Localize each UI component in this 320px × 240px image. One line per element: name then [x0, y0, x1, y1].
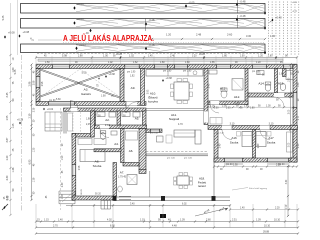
- svg-text:Nappali: Nappali: [169, 117, 180, 121]
- svg-text:+0.28: +0.28: [199, 54, 206, 56]
- level marker +0.38 garage: [98, 73, 115, 80]
- level marker x90 band2: [86, 29, 92, 35]
- terrace sub chain: [114, 204, 231, 207]
- rotated dim kitchen: [148, 89, 150, 94]
- band tick vertical x237b: [237, 15, 239, 28]
- wall corner extension ticks top: [36, 56, 297, 65]
- leader koris: [232, 187, 268, 190]
- kitchen counter: [146, 70, 203, 77]
- svg-text:+0.03: +0.03: [79, 43, 86, 47]
- svg-text:1.00: 1.00: [210, 105, 215, 107]
- svg-text:pm 1,00: pm 1,00: [167, 158, 176, 160]
- hall closet: [68, 113, 73, 131]
- svg-text:A8.: A8.: [95, 160, 100, 164]
- svg-text:5.00: 5.00: [82, 72, 87, 75]
- window A13 north: [216, 65, 231, 69]
- hall dashed lines: [73, 112, 81, 133]
- room label A2: [105, 118, 111, 127]
- svg-text:1.15: 1.15: [44, 218, 49, 221]
- svg-text:3.45: 3.45: [6, 92, 9, 97]
- entry door: [71, 101, 78, 112]
- window A9 north: [125, 65, 140, 69]
- living room tv: [157, 135, 173, 143]
- svg-text:1.55: 1.55: [6, 115, 9, 120]
- svg-text:A15.: A15.: [278, 82, 285, 86]
- svg-text:1.60: 1.60: [268, 56, 273, 58]
- label Hjkp: [30, 38, 34, 42]
- window A16 south: [224, 158, 243, 165]
- room label Fedett terasz: [198, 177, 207, 189]
- svg-text:1.20: 1.20: [166, 33, 172, 37]
- right dimension chain: [289, 63, 291, 163]
- room label A17 Szoba: [267, 136, 276, 145]
- svg-text:+0.38: +0.38: [166, 77, 173, 80]
- terrace post south middle: [161, 196, 165, 201]
- opening nappali corridor: [204, 112, 208, 123]
- door A4 top: [100, 125, 109, 138]
- corridor closet: [210, 118, 222, 125]
- level marker -0.48 band2: [236, 14, 246, 21]
- svg-text:1.40: 1.40: [148, 56, 153, 58]
- wall above bedrooms: [208, 126, 298, 130]
- room label A11 Nappali: [169, 113, 180, 121]
- pm labels row mid: [150, 133, 225, 135]
- window east wall: [293, 92, 297, 108]
- garage cross: [41, 68, 121, 98]
- left margin chain: [9, 3, 11, 216]
- roof overhang dashed: [60, 108, 62, 210]
- svg-text:A4.: A4.: [114, 142, 119, 146]
- level marker +0.08 left: [4, 31, 15, 39]
- left band guide line: [17, 0, 19, 55]
- bottom total row: [35, 231, 299, 235]
- wall A9 east / kitchen west: [141, 69, 145, 106]
- svg-text:A7.: A7.: [120, 171, 125, 175]
- svg-text:A14.: A14.: [258, 82, 265, 86]
- rotated dim A16: [220, 143, 222, 148]
- rotated dim garage: [42, 81, 44, 86]
- svg-text:1.08: 1.08: [101, 95, 106, 97]
- NE small dims: [256, 74, 293, 76]
- A2 fixtures: [97, 112, 116, 117]
- svg-text:+0.28: +0.28: [116, 54, 123, 56]
- svg-text:pm 1,80: pm 1,80: [163, 71, 172, 73]
- north exterior wall: [36, 65, 297, 69]
- svg-text:1.39: 1.39: [180, 218, 185, 221]
- svg-text:3.40: 3.40: [286, 179, 288, 184]
- svg-text:A12.: A12.: [234, 95, 241, 99]
- svg-text:10.10: 10.10: [274, 218, 281, 221]
- bottom dimension chains: [35, 220, 299, 228]
- svg-text:2.98: 2.98: [29, 81, 32, 86]
- A15 fixtures: [280, 71, 293, 91]
- wall A4 A6 divider: [121, 129, 125, 163]
- svg-text:1.20: 1.20: [256, 74, 261, 76]
- room label A5: [135, 117, 140, 121]
- svg-text:Kőris kötél egyeng: Kőris kötél egyeng: [249, 187, 268, 190]
- svg-text:2.48: 2.48: [196, 33, 202, 37]
- svg-text:3.40: 3.40: [130, 204, 135, 206]
- band tick vertical x237a: [237, 0, 239, 14]
- svg-text:2.40: 2.40: [170, 55, 175, 58]
- svg-text:pm 2,10: pm 2,10: [216, 133, 225, 135]
- svg-text:3.93: 3.93: [148, 89, 150, 94]
- A6 shelf: [126, 131, 138, 140]
- svg-text:2.98: 2.98: [123, 83, 125, 88]
- svg-text:1.39: 1.39: [256, 218, 261, 221]
- svg-text:+0.03: +0.03: [77, 17, 84, 21]
- terrace steps south: [101, 201, 111, 210]
- rotated dim A9: [123, 83, 125, 88]
- roof edge dashed line: [37, 53, 266, 55]
- rotated labels 40.38: [195, 206, 228, 216]
- level marker +0.03 band2: [73, 17, 84, 25]
- svg-text:pm 1,80: pm 1,80: [183, 71, 192, 73]
- garage inner dims: [56, 86, 99, 101]
- A7 block stub: [139, 170, 146, 174]
- A8 bed: [78, 139, 106, 162]
- kitchen table with chairs: [171, 79, 193, 104]
- room label A15: [278, 82, 285, 86]
- extension lines bottom: [36, 204, 297, 228]
- bottom dim texts row2: [53, 224, 271, 227]
- A2 A5 inner dims: [98, 116, 126, 118]
- svg-text:A9.: A9.: [131, 86, 136, 90]
- svg-text:3.02: 3.02: [8, 195, 10, 200]
- svg-text:1.00: 1.00: [266, 105, 271, 107]
- svg-text:1.65: 1.65: [210, 62, 215, 64]
- svg-text:1.50: 1.50: [45, 62, 50, 64]
- svg-text:2.80: 2.80: [206, 218, 211, 221]
- svg-text:terasz: terasz: [198, 184, 206, 188]
- terrace east edge line: [213, 162, 215, 197]
- bedroom lower dim chain: [213, 165, 298, 171]
- svg-text:90 20: 90 20: [95, 194, 101, 196]
- level marker band1 end: [264, 11, 266, 15]
- svg-text:-0.28: -0.28: [149, 43, 155, 47]
- level marker +0.03 band1: [73, 2, 84, 10]
- hall north wall: [64, 108, 147, 111]
- wall A2 east A5 west: [117, 111, 121, 125]
- svg-text:-2.77: -2.77: [292, 11, 298, 13]
- top dim texts: [62, 55, 288, 58]
- room label A10 Etkezo konyha: [148, 92, 158, 104]
- rotated dim A13: [209, 83, 211, 88]
- room label A4: [114, 142, 119, 146]
- svg-text:5.60: 5.60: [56, 99, 61, 101]
- svg-text:1.25: 1.25: [33, 147, 35, 152]
- svg-text:+0.38: +0.38: [109, 73, 116, 76]
- left dim texts: [29, 81, 32, 164]
- left margin texts: [2, 15, 17, 200]
- wall below A13: [208, 101, 248, 105]
- svg-text:+0.38: +0.38: [17, 118, 24, 121]
- A7 shower: [118, 175, 137, 193]
- svg-text:-0.05: -0.05: [292, 2, 298, 4]
- section arrow bottom left: [2, 204, 8, 210]
- entry level marker: [17, 118, 24, 124]
- entry porch: [43, 108, 62, 131]
- svg-text:1.50: 1.50: [62, 194, 64, 199]
- level marker +0.03 band3: [75, 43, 86, 50]
- room label A14: [258, 82, 265, 86]
- svg-text:pm 2,10: pm 2,10: [150, 133, 159, 135]
- section line vertical: [21, 55, 23, 212]
- west exterior wall garage: [36, 69, 40, 102]
- svg-text:1.80: 1.80: [250, 108, 255, 110]
- wall below A4: [94, 149, 121, 152]
- plaster line above north wall: [36, 62, 297, 64]
- svg-text:1.38: 1.38: [12, 167, 15, 172]
- corridor dim texts: [210, 105, 281, 107]
- svg-text:1,92: 1,92: [130, 76, 135, 78]
- A8 east wall: [91, 111, 95, 137]
- svg-text:6.93: 6.93: [29, 159, 32, 164]
- window A8 west: [72, 164, 76, 176]
- wall below A14 A15: [248, 93, 293, 97]
- wall A15 east stub: [283, 69, 287, 77]
- svg-text:2.05: 2.05: [222, 105, 227, 107]
- svg-text:3.00: 3.00: [289, 142, 291, 147]
- svg-text:A5.: A5.: [135, 117, 140, 121]
- A17 closet: [287, 132, 293, 152]
- svg-text:pm 1,80: pm 1,80: [252, 71, 261, 73]
- dim line under numbers: [151, 38, 266, 40]
- svg-text:A17: A17: [268, 136, 274, 140]
- level marker band3 end: [264, 51, 266, 55]
- svg-text:1.20: 1.20: [258, 55, 263, 58]
- svg-text:1.20: 1.20: [256, 62, 261, 64]
- svg-text:2.05: 2.05: [226, 108, 231, 110]
- svg-text:1.20: 1.20: [6, 155, 9, 160]
- svg-text:1.60: 1.60: [279, 74, 284, 76]
- window kitchen north 1: [154, 65, 168, 69]
- roof band 1: [21, 4, 266, 14]
- svg-text:1,98: 1,98: [86, 119, 91, 121]
- A8 north wall jog: [72, 134, 93, 138]
- door A9 south: [126, 102, 137, 114]
- title A JELU LAKAS ALAPRAJZA: [63, 34, 265, 43]
- svg-text:Szoba: Szoba: [93, 164, 102, 168]
- svg-text:Garázs: Garázs: [81, 92, 91, 96]
- roof band 2: [21, 19, 266, 29]
- svg-text:2.00: 2.00: [289, 109, 291, 114]
- svg-text:+0.38: +0.38: [23, 30, 30, 34]
- room label A7: [118, 171, 127, 179]
- A16 bed: [237, 132, 253, 147]
- svg-text:10.10: 10.10: [264, 224, 271, 227]
- svg-text:2-60: 2-60: [227, 33, 233, 37]
- svg-text:+0.48: +0.48: [275, 16, 282, 20]
- svg-text:-0.28: -0.28: [149, 18, 155, 22]
- wall A16 west: [214, 130, 218, 163]
- svg-text:3.30: 3.30: [246, 34, 252, 38]
- wall A16 A17 divider: [253, 130, 256, 159]
- svg-text:4.70: 4.70: [178, 123, 183, 126]
- dim row between bands: [166, 33, 276, 39]
- mid wall below A2 A5: [92, 125, 147, 129]
- svg-text:2.77: 2.77: [298, 115, 300, 120]
- svg-text:1.79 45: 1.79 45: [118, 176, 127, 179]
- svg-text:2.45: 2.45: [209, 83, 211, 88]
- svg-text:2.51: 2.51: [232, 218, 237, 221]
- svg-text:3.10: 3.10: [230, 123, 235, 126]
- svg-text:1.30: 1.30: [270, 34, 276, 38]
- rotated dim bl: [4, 195, 48, 200]
- window A15 north 2: [283, 65, 293, 69]
- wall A6 east thick: [139, 129, 146, 171]
- svg-text:39.88: 39.88: [263, 231, 270, 234]
- svg-text:1.80: 1.80: [298, 82, 300, 87]
- svg-text:A2.: A2.: [105, 118, 110, 122]
- nappali terrace glass wall: [146, 152, 208, 156]
- svg-text:+0.03: +0.03: [77, 2, 84, 6]
- svg-text:1.02: 1.02: [108, 62, 113, 64]
- svg-text:A6.: A6.: [129, 149, 134, 153]
- svg-text:4.02: 4.02: [107, 218, 112, 221]
- level marker +0.48 grid: [270, 16, 283, 23]
- parapet labels: [49, 71, 285, 196]
- room label A16 Szoba: [230, 136, 239, 145]
- A8 bottom sub chain: [66, 188, 114, 206]
- garage south window: [48, 102, 75, 106]
- window A17 south: [267, 158, 289, 165]
- paving dot grid top-right: [268, 2, 299, 55]
- svg-text:2.70: 2.70: [53, 224, 58, 227]
- corridor dim chain: [207, 106, 294, 108]
- A17 bed: [256, 132, 271, 147]
- window kitchen north 2: [174, 65, 188, 69]
- A13 bath fixtures: [209, 70, 243, 98]
- top dim texts row2: [45, 62, 283, 64]
- svg-text:1.38: 1.38: [33, 177, 35, 182]
- room label A3 Garazs: [81, 88, 91, 96]
- svg-text:2.98: 2.98: [42, 81, 44, 86]
- svg-text:konyha: konyha: [148, 100, 158, 104]
- A5 fixtures: [122, 112, 140, 117]
- room label A6: [129, 149, 134, 153]
- svg-text:2.39: 2.39: [33, 107, 35, 112]
- A8 west wall: [72, 134, 76, 201]
- svg-text:1.80: 1.80: [244, 105, 249, 107]
- svg-text:2.98: 2.98: [78, 56, 83, 58]
- bottom dim texts row1: [37, 218, 281, 221]
- door A13: [210, 101, 219, 113]
- svg-text:3.87: 3.87: [6, 137, 9, 142]
- terrace west edge line: [149, 171, 151, 197]
- door A17: [260, 126, 270, 140]
- wall A2 west: [92, 111, 96, 125]
- svg-text:1.62: 1.62: [133, 62, 138, 64]
- wall A6 south: [123, 163, 139, 167]
- svg-text:-0.48: -0.48: [240, 0, 246, 4]
- wall A17 east: [293, 130, 297, 163]
- svg-text:1.00: 1.00: [103, 55, 108, 58]
- rotated dim A8: [79, 165, 81, 170]
- svg-text:1.80: 1.80: [185, 62, 190, 64]
- top dimension chain: [35, 56, 298, 58]
- svg-text:Szoba: Szoba: [230, 141, 239, 145]
- leader line to title: [38, 39, 62, 41]
- svg-text:1.90: 1.90: [62, 155, 64, 160]
- svg-text:8.00: 8.00: [110, 224, 115, 227]
- svg-text:2.10: 2.10: [105, 123, 111, 127]
- right dim texts: [289, 70, 300, 148]
- level marker -0.28 band2: [145, 18, 155, 26]
- level marker band2 end: [264, 26, 266, 30]
- svg-text:2.40: 2.40: [220, 143, 222, 148]
- terrace post southwest: [113, 196, 117, 201]
- svg-text:-0.48: -0.48: [240, 14, 246, 18]
- top dim texts extra: [44, 56, 273, 58]
- svg-text:Szoba: Szoba: [267, 141, 276, 145]
- svg-text:A13.: A13.: [220, 87, 227, 91]
- svg-text:90 20: 90 20: [81, 188, 83, 194]
- level marker -0.48 band1: [236, 0, 246, 6]
- A14 toilet: [257, 71, 271, 92]
- left dimension chain: [30, 63, 32, 201]
- misc dim texts: [82, 72, 274, 127]
- top chain markers: [116, 54, 277, 59]
- roof band 3: [21, 44, 266, 53]
- svg-text:1.02: 1.02: [129, 55, 134, 58]
- rotated dim A17: [258, 143, 260, 148]
- svg-text:1.10: 1.10: [286, 204, 288, 209]
- room label A9: [131, 86, 136, 90]
- room label A13: [220, 87, 227, 91]
- svg-text:1.00: 1.00: [240, 56, 245, 58]
- wall kitchen east: [204, 69, 208, 125]
- A7 south door: [119, 196, 131, 200]
- terrace post southeast: [212, 196, 216, 201]
- room label A8 Szoba: [93, 160, 102, 169]
- window garage west: [36, 76, 40, 88]
- section marker bottom: [160, 214, 166, 218]
- level marker -0.05: [185, 0, 195, 7]
- svg-text:4.48: 4.48: [172, 224, 177, 227]
- svg-text:1.90: 1.90: [233, 165, 238, 167]
- svg-text:6.02: 6.02: [182, 204, 187, 206]
- svg-text:pm 1,90: pm 1,90: [127, 71, 136, 73]
- right lower chain: [286, 165, 289, 217]
- svg-text:A16: A16: [231, 136, 237, 140]
- svg-text:1.80: 1.80: [289, 77, 291, 82]
- svg-text:-0.05: -0.05: [189, 0, 195, 4]
- svg-text:+0.02: +0.02: [47, 108, 54, 111]
- room label A12: [234, 95, 241, 105]
- svg-text:5.45: 5.45: [2, 15, 5, 20]
- svg-text:1.19: 1.19: [140, 218, 145, 221]
- svg-text:2.40: 2.40: [258, 143, 260, 148]
- left col rotated dims: [33, 70, 35, 194]
- svg-text:2.40: 2.40: [62, 182, 64, 187]
- level marker +0.38 left: [19, 30, 30, 38]
- wall A13 A14 divider: [245, 69, 248, 105]
- svg-text:2.39: 2.39: [29, 113, 32, 118]
- svg-text:5.98: 5.98: [62, 55, 67, 58]
- svg-text:1.80: 1.80: [160, 62, 165, 64]
- wall garage east / A9 west: [120, 69, 124, 102]
- svg-text:1.80: 1.80: [222, 55, 227, 58]
- level marker +0.38 kitchen: [162, 77, 172, 82]
- band tick vertical x145: [145, 19, 147, 32]
- svg-text:3.20: 3.20: [192, 56, 197, 58]
- svg-text:1.25: 1.25: [12, 123, 15, 128]
- exterior stair southwest: [59, 191, 75, 204]
- grid corner labels: [292, 2, 298, 13]
- svg-text:3.58: 3.58: [79, 165, 81, 170]
- eaves band above north wall: [38, 59, 283, 61]
